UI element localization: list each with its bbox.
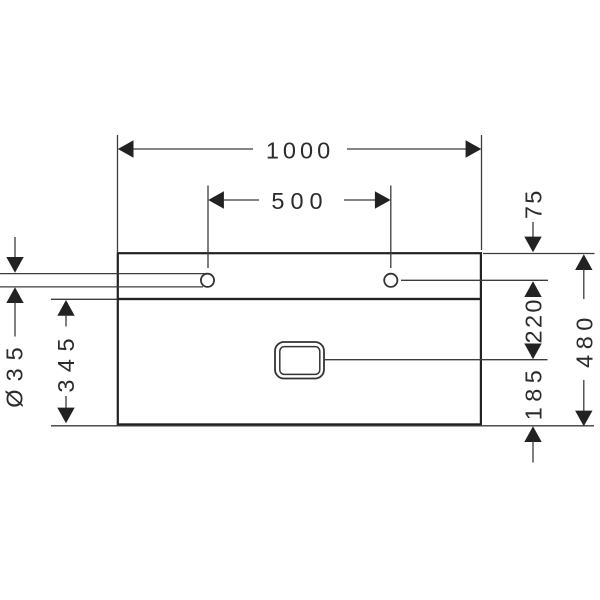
basin body outline — [118, 299, 481, 424]
dimension 185 arrow up below bottom line — [524, 426, 541, 442]
svg-text:75: 75 — [521, 188, 547, 219]
dimension 480 label — [571, 312, 597, 368]
dimension 500 arrow left — [208, 191, 224, 208]
dimension 345 upper stem — [65, 315, 67, 327]
dimension diameter35 upper stem — [14, 237, 16, 258]
extension line left for 345 top — [51, 298, 117, 300]
dimension 1000 arrow left — [118, 140, 134, 157]
dimension 500 label — [271, 188, 328, 214]
dimension 185 label — [521, 365, 547, 420]
dimension 1000 line left segment — [132, 148, 253, 150]
svg-text:480: 480 — [571, 312, 597, 368]
extension line bottom — [51, 425, 594, 427]
dimension 1000 arrow right — [466, 140, 482, 157]
dimension 345 lower arrow — [57, 408, 74, 424]
dimension 220 upper arrow — [524, 281, 541, 297]
dimension 345 upper arrow — [57, 300, 74, 316]
dimension 345 lower stem — [65, 396, 67, 409]
dimension 1000 label — [266, 138, 334, 164]
dimension 220 lower arrow — [524, 344, 541, 360]
dimension 480 lower stem — [583, 380, 585, 412]
extension line right for 1000 — [481, 135, 483, 250]
dimension 480 lower arrow — [575, 411, 592, 427]
dimension 75 stem — [532, 222, 534, 238]
extension line lower tangent of hole for diameter 35 — [0, 286, 203, 288]
dimension 185 lower stem — [532, 441, 534, 463]
dimension diameter35 lower stem — [14, 302, 16, 337]
svg-text:345: 345 — [53, 331, 79, 393]
extension line right for 500 — [390, 186, 392, 269]
drain inner outline — [280, 347, 320, 375]
dimension diameter35 label — [2, 339, 28, 407]
dimension 1000 line right segment — [347, 148, 467, 150]
faucet hole left — [201, 274, 214, 287]
dimension 500 line right segment — [344, 199, 377, 201]
extension line right of deck top — [483, 253, 595, 255]
svg-text:220: 220 — [521, 297, 547, 343]
dimension 500 arrow right — [375, 191, 391, 208]
svg-text:500: 500 — [271, 188, 328, 214]
extension line upper tangent of hole for diameter 35 — [0, 273, 205, 275]
dimension 480 upper stem — [583, 269, 585, 299]
extension line right of hole centerline — [401, 279, 548, 281]
svg-text:Ø35: Ø35 — [2, 339, 28, 407]
svg-text:185: 185 — [521, 365, 547, 420]
faucet hole right — [384, 274, 397, 287]
dimension 345 label — [53, 331, 79, 393]
extension line right of drain centerline — [325, 359, 548, 361]
dimension 480 upper arrow — [575, 254, 592, 270]
dimension diameter35 upper arrow — [6, 257, 23, 273]
dimension diameter35 lower arrow — [6, 287, 23, 303]
drain outer outline — [275, 342, 324, 379]
extension line left for 1000 — [117, 135, 119, 252]
dimension 75 label — [521, 188, 547, 219]
extension line left for 500 — [207, 186, 209, 269]
dimension 500 line left segment — [222, 199, 259, 201]
basin deck outline — [118, 253, 481, 299]
dimension 220 label — [521, 297, 547, 343]
svg-text:1000: 1000 — [266, 138, 334, 164]
dimension 75 arrow down — [524, 237, 541, 253]
